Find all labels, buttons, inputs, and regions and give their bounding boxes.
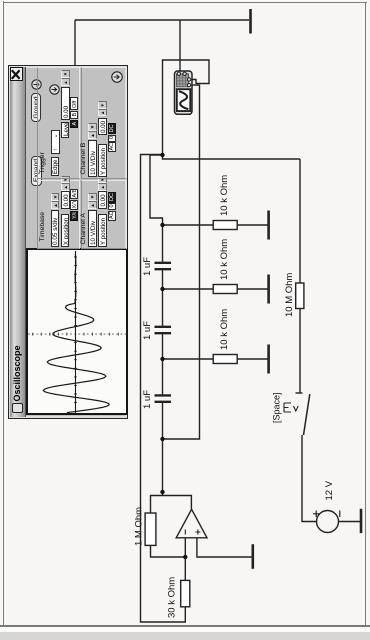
oscilloscope probe U2 <box>175 71 193 114</box>
junction node N1 <box>160 153 164 157</box>
wire node N4 to R4 <box>163 358 214 360</box>
wire bus C1 to node N2 <box>162 225 164 263</box>
svg-text:1 uF: 1 uF <box>142 321 153 340</box>
svg-text:[Space]: [Space] <box>272 392 282 423</box>
ground button <box>31 94 41 123</box>
title bar <box>10 68 26 418</box>
screen horizontal axis dashed <box>74 251 76 413</box>
junction node N6 <box>160 490 164 494</box>
resistor R5 (10 M Ohm) <box>296 283 304 309</box>
canvas frame top line <box>3 1 4 627</box>
ground button icon <box>31 80 42 91</box>
wire node N5 to probe input B <box>163 85 200 439</box>
wire R1 to node N7 <box>184 557 186 580</box>
switch SW1 [Space] <box>284 393 310 435</box>
junction node N7 <box>183 555 187 559</box>
wire jog node N2 to node N1 <box>150 155 163 225</box>
ground G1 <box>249 9 252 34</box>
ground G6 at non-inverting input <box>252 544 255 569</box>
wire node N3 to R3 <box>163 288 214 290</box>
ground G4 below R3 <box>237 275 268 304</box>
wire bus C2 to C1 <box>162 269 164 326</box>
resistor R2 (10 k Ohm) <box>213 221 237 230</box>
junction node N4 <box>160 357 164 361</box>
svg-text:10 M Ohm: 10 M Ohm <box>284 273 295 317</box>
battery B1 (12 V) <box>313 511 340 533</box>
wire R6 right end to output node <box>151 496 163 514</box>
ground G5 below R4 <box>237 345 268 374</box>
wire probe ground pin to ground bus <box>179 20 181 74</box>
svg-text:1 M Ohm: 1 M Ohm <box>134 507 145 546</box>
capacitor C1 (1 uF) <box>155 263 172 269</box>
resistor R1 (30 k Ohm) <box>181 580 190 606</box>
trigger panel <box>37 68 80 180</box>
resistor R3 (10 k Ohm) <box>213 285 237 294</box>
junction node N5 <box>160 437 164 441</box>
wire op-amp output to bus <box>163 496 192 510</box>
wire node N1 to probe input A <box>163 60 210 155</box>
wire scope window to ground bus <box>74 20 76 65</box>
resistor R6 (1 M Ohm) <box>145 513 156 545</box>
wire bus C3 to C2 <box>162 333 164 395</box>
wire op-amp non-inverting input to ground <box>197 538 252 557</box>
capacitor C3 (1 uF) <box>155 395 172 401</box>
svg-text:10 k Ohm: 10 k Ohm <box>219 175 230 216</box>
trace channel A sine <box>43 254 109 413</box>
svg-text:1 uF: 1 uF <box>142 257 153 276</box>
svg-text:10 k Ohm: 10 k Ohm <box>219 239 230 280</box>
close button <box>10 67 23 82</box>
expand button <box>31 157 42 187</box>
wire R1 left around to node N1 <box>141 155 186 623</box>
wire feedback node N1 down <box>163 155 301 159</box>
ground G2 below battery <box>339 509 362 533</box>
screen frame <box>26 248 129 415</box>
wire switch to battery B1 <box>302 435 317 522</box>
canvas frame left strip <box>0 632 370 640</box>
svg-text:10 k Ohm: 10 k Ohm <box>219 309 230 350</box>
wire bus (op-amp output node to C3 left) <box>162 402 164 496</box>
svg-text:12 V: 12 V <box>324 480 335 500</box>
wire ground bus <box>75 19 249 21</box>
wire R6 left end to node N7 <box>151 545 186 557</box>
ground G3 below R2 <box>237 211 268 240</box>
wire R5 to switch SW1 <box>299 309 301 394</box>
channel B panel <box>81 68 127 180</box>
wire to R5 <box>299 159 301 283</box>
svg-text:1 uF: 1 uF <box>142 390 153 409</box>
wire op-amp inverting input to node N7 <box>184 538 186 557</box>
axis ticks horizontal <box>74 257 77 403</box>
wire node N2 to R2 <box>163 224 214 226</box>
title text <box>12 282 23 402</box>
trace channel B flat <box>74 251 76 413</box>
canvas frame bottom line <box>365 2 366 627</box>
svg-text:30 k Ohm: 30 k Ohm <box>167 577 178 618</box>
resistor R4 (10 k Ohm) <box>213 355 237 364</box>
op-amp U1 <box>176 509 207 538</box>
canvas frame right line <box>3 2 367 3</box>
junction node N2 <box>160 223 164 227</box>
oscilloscope window <box>8 65 128 420</box>
screen vertical axis dashed <box>28 333 127 335</box>
channel A panel <box>81 181 127 250</box>
junction node N3 <box>160 287 164 291</box>
title bar icon <box>12 404 23 414</box>
axis ticks vertical <box>32 333 118 336</box>
capacitor C2 (1 uF) <box>155 327 172 333</box>
timebase panel <box>37 181 80 250</box>
